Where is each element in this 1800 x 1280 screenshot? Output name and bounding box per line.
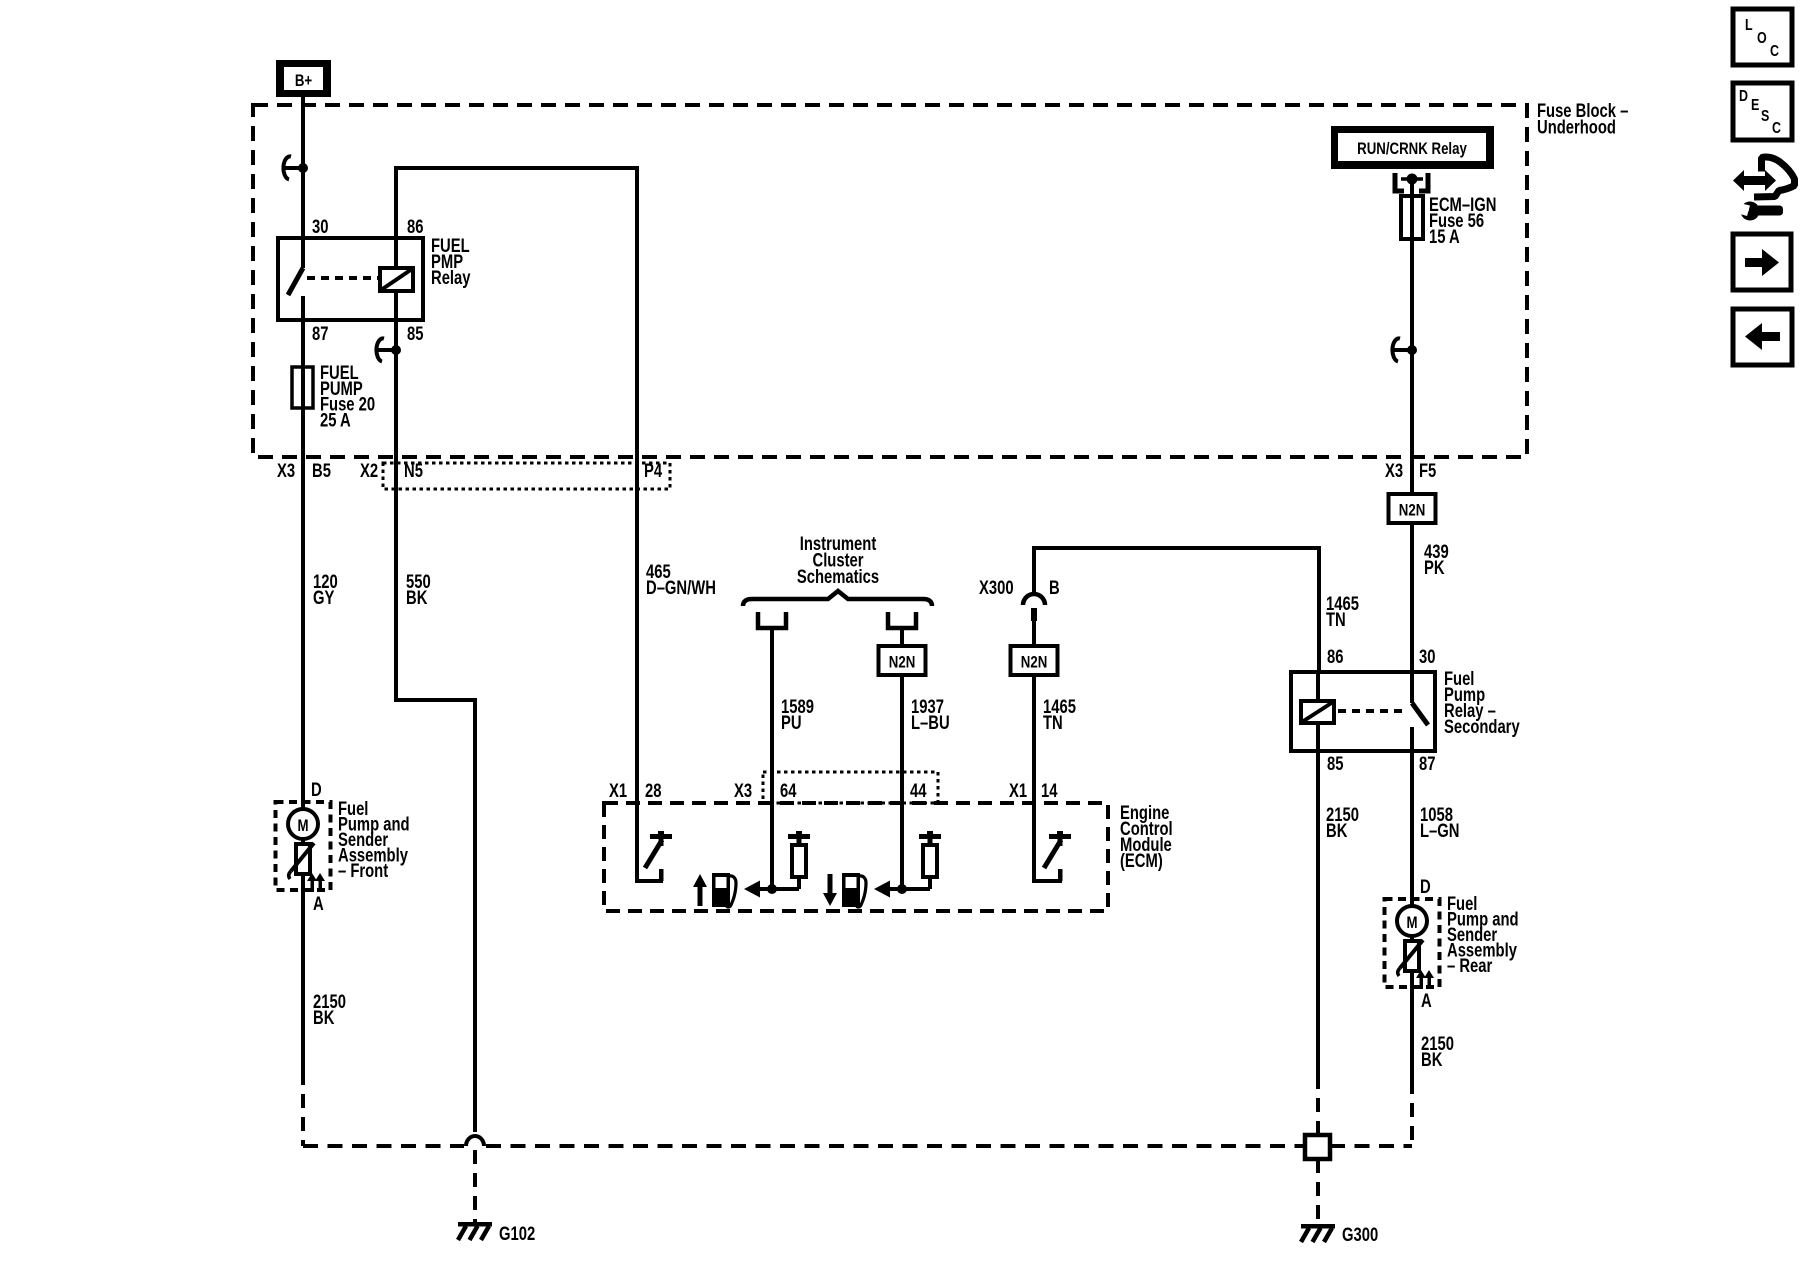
ECM internal switch for pin 28 [635, 803, 639, 881]
connector N2N on 439 PK [1389, 494, 1436, 523]
svg-text:B+: B+ [295, 72, 312, 91]
wire 1937 L-BU [900, 628, 904, 803]
dashed drop junction to G300 [1316, 1159, 1320, 1224]
wire 1589 PU [770, 628, 774, 803]
svg-text:P4: P4 [644, 460, 663, 481]
svg-text:C: C [1770, 43, 1779, 61]
svg-text:Relay: Relay [431, 267, 471, 288]
svg-text:86: 86 [1327, 646, 1343, 667]
wire 465 D-GN/WH: relay 86 up, across, down to ECM X1 28 [394, 166, 398, 238]
FUEL PMP Relay actuation dashed link [307, 276, 379, 280]
svg-text:30: 30 [1419, 646, 1435, 667]
connector X300 pin B halfround [1023, 594, 1045, 605]
svg-text:B5: B5 [312, 460, 331, 481]
svg-text:PU: PU [781, 712, 802, 733]
FUEL PMP Relay coil (pins 86-85) [394, 238, 398, 270]
Fuel Pump and Sender Assembly - Rear [1385, 899, 1440, 987]
splice hook on 550 BK wire [376, 338, 384, 361]
svg-text:TN: TN [1043, 712, 1063, 733]
connector X2 dotted box (N5..P4) [383, 463, 670, 489]
svg-text:85: 85 [407, 323, 423, 344]
svg-text:X3: X3 [1385, 460, 1403, 481]
svg-text:X300: X300 [979, 577, 1014, 598]
svg-text:A: A [1421, 990, 1432, 1011]
svg-text:(ECM): (ECM) [1120, 850, 1163, 871]
instrument cluster terminal bracket (fuel gauge) [758, 612, 786, 628]
secondary relay dashed link [1338, 709, 1407, 713]
connector N2N on 1937 L-BU [879, 646, 926, 675]
FUEL PMP Relay switch (pins 30-87) [301, 238, 305, 268]
svg-text:L: L [1745, 17, 1753, 35]
svg-text:25 A: 25 A [320, 410, 351, 431]
svg-text:B: B [1049, 577, 1060, 598]
svg-text:64: 64 [780, 780, 797, 801]
svg-text:G300: G300 [1342, 1224, 1378, 1245]
svg-text:BK: BK [406, 587, 428, 608]
connector N2N on 1465 TN [1011, 646, 1058, 675]
wire 2150 BK below front pump [301, 890, 305, 1071]
svg-text:X1: X1 [609, 780, 627, 801]
svg-text:TN: TN [1326, 609, 1346, 630]
forward arrow box [1733, 234, 1791, 290]
fuel pump icon (gauge) [712, 873, 730, 907]
svg-text:BK: BK [1326, 820, 1348, 841]
relay output terminal bracket [1395, 173, 1404, 191]
svg-text:PK: PK [1424, 557, 1445, 578]
connector X3 dotted box (64..44) [763, 772, 938, 803]
svg-text:N2N: N2N [1021, 653, 1048, 672]
svg-text:87: 87 [312, 323, 328, 344]
svg-text:BK: BK [1421, 1049, 1443, 1070]
splice junction square S spliced grounds [1305, 1135, 1330, 1159]
Fuel Pump and Sender Assembly - Front [276, 802, 331, 890]
ground G102 [458, 1222, 492, 1227]
svg-text:D: D [1420, 876, 1431, 897]
svg-text:Schematics: Schematics [797, 566, 879, 587]
ECM fuel gauge driver: pin 64 [770, 803, 774, 889]
svg-text:14: 14 [1041, 780, 1058, 801]
svg-text:A: A [313, 893, 324, 914]
svg-text:L–BU: L–BU [911, 712, 950, 733]
svg-text:N2N: N2N [1399, 501, 1426, 520]
svg-text:G102: G102 [499, 1223, 535, 1244]
svg-text:– Rear: – Rear [1447, 955, 1493, 976]
splice hook on B+ feed wire [283, 156, 291, 179]
svg-text:86: 86 [407, 216, 423, 237]
dashed drop to G102 [473, 1150, 477, 1222]
DESC navigation box [1733, 83, 1792, 140]
svg-text:– Front: – Front [338, 860, 388, 881]
svg-text:30: 30 [312, 216, 328, 237]
B+ battery positive terminal [276, 60, 331, 97]
svg-text:85: 85 [1327, 753, 1343, 774]
wire 550 BK: relay 85 down, jog right, to G102 [394, 320, 398, 700]
svg-text:44: 44 [910, 780, 927, 801]
svg-text:Underhood: Underhood [1537, 117, 1616, 138]
RUN/CRNK Relay block [1331, 126, 1494, 169]
svg-text:D: D [1739, 88, 1748, 106]
up arrow [698, 885, 703, 906]
svg-text:Secondary: Secondary [1444, 716, 1520, 737]
crossover hump over ground bus [466, 1136, 484, 1146]
svg-text:D–GN/WH: D–GN/WH [646, 577, 716, 598]
svg-text:X3: X3 [734, 780, 752, 801]
fuse ECM-IGN Fuse 56 15 A [1401, 196, 1423, 239]
relay FUEL PMP Relay box [278, 238, 423, 320]
ECM low fuel driver: pin 44 [900, 803, 904, 889]
svg-text:15 A: 15 A [1429, 226, 1460, 247]
svg-text:O: O [1757, 30, 1767, 48]
svg-text:X3: X3 [277, 460, 295, 481]
down arrow [828, 874, 833, 895]
svg-text:S: S [1761, 108, 1769, 126]
svg-text:M: M [297, 817, 308, 836]
wire 2150 BK below rear pump [1410, 987, 1414, 1080]
fuse FUEL PUMP Fuse 20 25 A [292, 367, 313, 408]
svg-text:N2N: N2N [889, 653, 916, 672]
wire 1058 L-GN: secondary relay 87 to rear pump [1410, 751, 1414, 899]
svg-text:F5: F5 [1419, 460, 1436, 481]
svg-text:C: C [1772, 120, 1781, 138]
svg-text:GY: GY [313, 587, 335, 608]
svg-text:28: 28 [645, 780, 661, 801]
svg-text:L–GN: L–GN [1420, 820, 1459, 841]
svg-text:X2: X2 [360, 460, 378, 481]
instrument cluster terminal bracket (low fuel) [888, 612, 916, 628]
svg-text:X1: X1 [1009, 780, 1027, 801]
back arrow box [1733, 309, 1792, 365]
svg-text:E: E [1751, 97, 1759, 115]
secondary relay switch (30-87) [1410, 672, 1414, 703]
wire 1465 TN: ECM X1 14 up through X300 to secondary relay 86 [1032, 546, 1321, 550]
ground bus dashed line left of junction [303, 1144, 464, 1148]
splice hook on 439 PK wire [1392, 338, 1400, 361]
wire: B+ feed down to FUEL PMP Relay pin 30 [301, 97, 305, 238]
ECM internal switch for pin 14 [1032, 803, 1036, 881]
fuel pump icon (low fuel) [842, 873, 860, 907]
wire: relay 87 down through fuse to X3 B5 [301, 320, 305, 802]
svg-text:RUN/CRNK Relay: RUN/CRNK Relay [1357, 140, 1467, 159]
ground bus dashed line right of junction [1330, 1144, 1412, 1148]
Engine Control Module dashed box [604, 803, 1108, 911]
relay Fuel Pump Relay - Secondary box [1291, 672, 1435, 751]
wire 2150 BK from secondary relay 85 [1316, 751, 1320, 1075]
instrument cluster brace [743, 591, 932, 606]
diagnostic info icon (double arrow, outline arrow, wrench) [1733, 170, 1776, 191]
svg-text:BK: BK [313, 1007, 335, 1028]
svg-text:N5: N5 [404, 460, 423, 481]
wire 439 PK: fuse down to secondary relay pin 30 [1410, 239, 1414, 672]
Fuse Block - Underhood dashed enclosure [253, 105, 1527, 457]
secondary relay coil (86-85) [1316, 672, 1320, 703]
svg-text:87: 87 [1419, 753, 1435, 774]
ground G300 [1301, 1224, 1335, 1229]
LOC navigation box [1733, 9, 1792, 65]
svg-text:D: D [311, 779, 322, 800]
svg-text:M: M [1406, 914, 1417, 933]
